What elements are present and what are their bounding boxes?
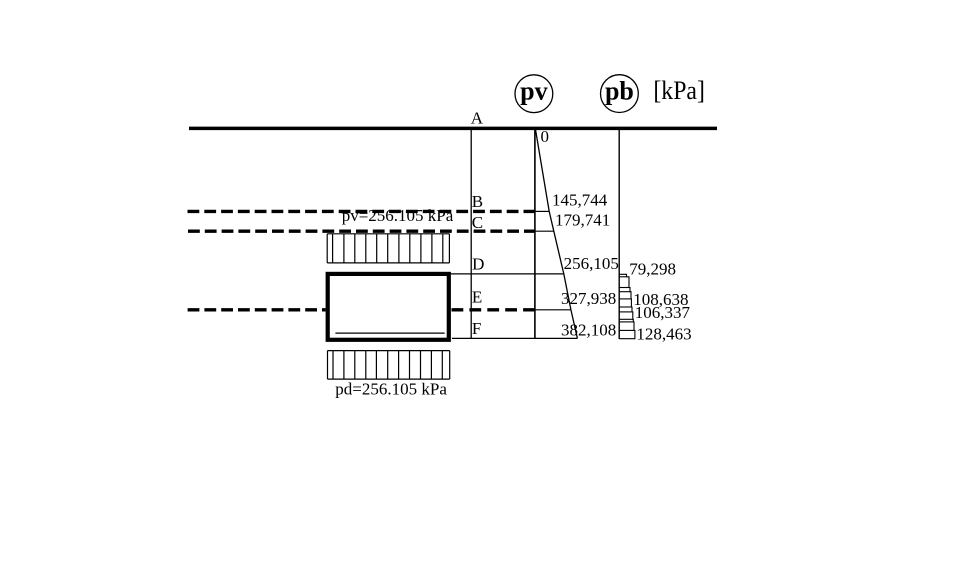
pv tick at C [535,230,554,232]
svg-text:F: F [472,319,481,338]
level B dashed line [188,210,535,213]
pv tick at E [535,309,571,311]
ground surface line A [189,127,717,131]
svg-text:106,337: 106,337 [635,303,691,322]
foundation block (thick rectangle) [328,274,449,340]
svg-text:D: D [472,254,484,273]
level E dashed line (right of foundation) [452,308,535,311]
design pressure hatch strip (bottom) [328,351,450,380]
pb symbol circle [601,75,639,113]
svg-text:256,105: 256,105 [564,254,619,273]
svg-text:pv=256.105 kPa: pv=256.105 kPa [342,206,454,225]
svg-text:0: 0 [541,127,550,146]
svg-text:A: A [471,108,484,127]
pb staircase diagram outline [619,274,635,338]
level D line (top of foundation to pv curve) [450,273,564,275]
svg-text:E: E [472,288,482,307]
pv distribution slanted line [536,130,578,338]
pb staircase interior step lines [619,277,634,331]
svg-text:C: C [472,213,483,232]
svg-text:B: B [472,192,483,211]
svg-text:pd=256.105 kPa: pd=256.105 kPa [335,380,447,399]
pb diagram axis [618,130,620,339]
pv symbol circle [515,75,553,113]
pv diagram axis [534,130,536,338]
svg-text:179,741: 179,741 [555,211,610,230]
svg-text:pv: pv [520,77,547,106]
svg-text:[kPa]: [kPa] [653,76,705,105]
pv tick at B [535,210,549,212]
svg-text:145,744: 145,744 [552,190,608,209]
depth reference line (letters axis) [470,130,472,338]
svg-text:128,463: 128,463 [636,325,691,344]
level E dashed line (left of foundation) [188,308,326,311]
level F line (bottom of foundation to pv curve) [452,337,578,339]
svg-text:382,108: 382,108 [561,321,616,340]
svg-text:pb: pb [605,77,634,106]
level C dashed line [188,229,535,232]
svg-text:79,298: 79,298 [629,259,676,278]
foundation inner base line [335,332,444,334]
surcharge hatch strip (top) [327,234,449,263]
